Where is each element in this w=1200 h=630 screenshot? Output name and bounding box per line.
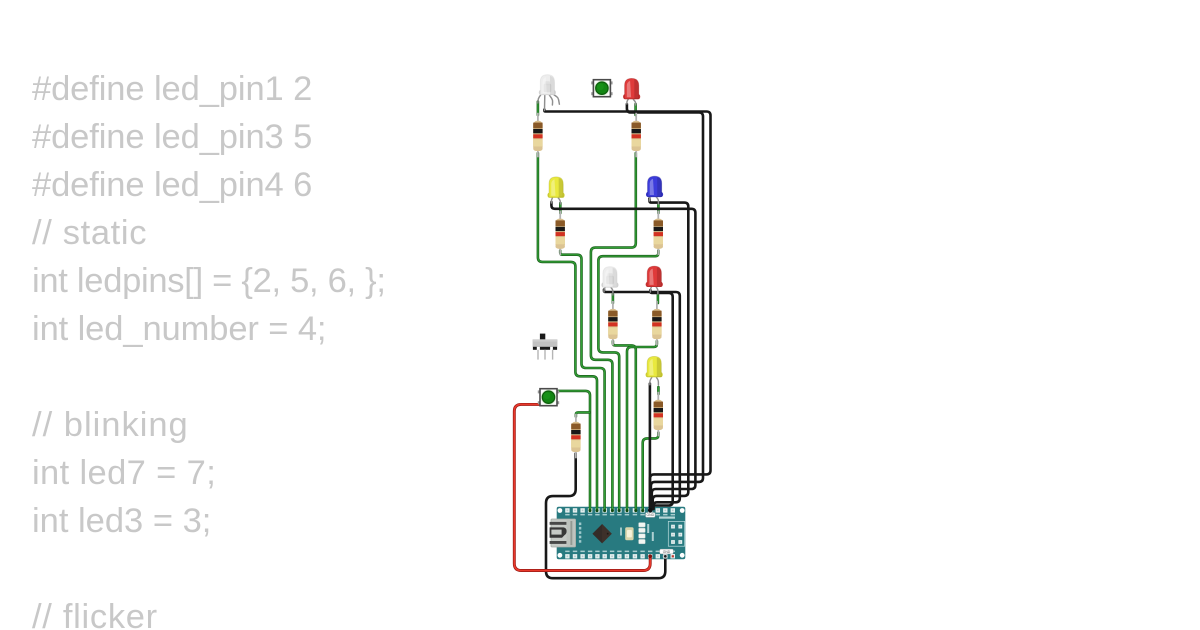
wire LED1 cathode to GND	[544, 110, 710, 510]
wire LED4 cathode to GND	[649, 199, 688, 510]
LED LED3 yellow	[548, 177, 565, 204]
wire button SW3 to 5V pin	[514, 404, 650, 570]
LED LED2 red	[623, 78, 640, 105]
LED LED4 blue	[646, 176, 663, 204]
wire LED7 cathode to GND	[649, 384, 652, 510]
svg-text:#define led_pin3 5: #define led_pin3 5	[32, 118, 312, 156]
wire R8 to GND pin	[546, 454, 665, 579]
resistor R4	[654, 211, 663, 256]
LED LED1 white RGB	[538, 75, 560, 111]
svg-text:int led3 = 3;: int led3 = 3;	[32, 502, 211, 540]
wire LED5 R5 to pin D6	[613, 341, 636, 511]
resistor R8	[571, 414, 580, 459]
wire LED3 cathode to GND	[551, 202, 695, 509]
LED LED6 red	[646, 266, 663, 294]
svg-text:// flicker: // flicker	[32, 598, 158, 630]
svg-text:int led7 = 7;: int led7 = 7;	[32, 454, 216, 492]
wire LED7 anode to R7	[657, 387, 660, 394]
wire LED5 cathode to GND	[604, 290, 680, 510]
wire button SW3 node to R8	[576, 412, 590, 416]
wire LED7 R7 to pin D4	[643, 433, 659, 511]
wire LED4 anode to R4	[657, 203, 660, 213]
pushbutton SW3 (lower)	[538, 389, 559, 406]
pushbutton SW2 (top)	[591, 80, 612, 97]
svg-text:#define led_pin1 2: #define led_pin1 2	[32, 70, 312, 108]
resistor R2	[632, 113, 641, 158]
wire LED1 R1 to pin D12	[538, 153, 597, 511]
wire LED5 anode to R5	[612, 294, 615, 303]
svg-text:GND: GND	[647, 513, 655, 517]
resistor R5	[608, 301, 617, 346]
code text	[32, 70, 386, 630]
slide switch SW1	[533, 334, 558, 360]
wire LED6 R6 to pin D7	[627, 341, 657, 511]
LED LED5 white	[601, 267, 618, 295]
wire LED6 anode to R6	[657, 294, 660, 304]
svg-text:// blinking: // blinking	[32, 406, 189, 444]
wire LED2 anode to R2	[634, 104, 637, 115]
svg-text:GND: GND	[663, 550, 671, 554]
wire LED6 cathode to GND	[650, 290, 673, 510]
svg-text:// static: // static	[32, 214, 147, 252]
wire LED1 anode to R1	[537, 102, 540, 116]
Arduino Nano board U1	[550, 507, 686, 559]
wire LED3 R3 to pin D10	[560, 251, 604, 511]
wire LED4 R4 to pin D8	[598, 251, 658, 511]
wire button SW3 to pin D12	[557, 391, 590, 511]
LED LED7 yellow	[646, 356, 663, 385]
svg-text:int led_number = 4;: int led_number = 4;	[32, 310, 326, 348]
resistor R6	[652, 301, 661, 346]
resistor R1	[533, 113, 542, 158]
svg-text:int ledpins[] = {2, 5, 6, };: int ledpins[] = {2, 5, 6, };	[32, 262, 386, 300]
wire LED2 cathode to GND	[627, 104, 703, 509]
wire LED3 anode to R3	[559, 203, 562, 213]
resistor R3	[556, 211, 565, 256]
svg-text:#define led_pin4 6: #define led_pin4 6	[32, 166, 312, 204]
wire LED2 R2 to pin D9	[591, 153, 636, 511]
resistor R7	[654, 392, 663, 437]
wire end caps	[589, 508, 668, 559]
